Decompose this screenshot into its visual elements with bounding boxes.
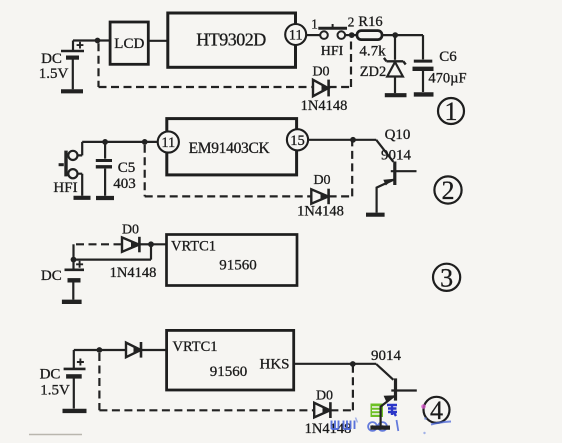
svg-text:ZD2: ZD2 [360, 64, 387, 80]
switch HFI (circuit 1) [318, 24, 347, 39]
IC U2 EM91403CK [167, 119, 297, 175]
label D0 (circuit 3) [122, 223, 139, 238]
label 9014 (circuit 2) [381, 148, 412, 164]
switch HFI (circuit 2) [59, 142, 91, 198]
resistor R16 [357, 31, 382, 40]
watermark blue swoosh under circle 4 [356, 417, 452, 434]
svg-text:HFI: HFI [53, 180, 77, 196]
diode D0 (circuit 4) [314, 402, 330, 418]
dashed wire rail node down and right (circuit 2) [145, 145, 311, 197]
watermark blue oo glyphs [368, 420, 398, 431]
label D0 (circuit 4) [316, 389, 333, 404]
svg-text:2: 2 [442, 176, 455, 205]
label D0 (circuit 2) [313, 173, 330, 188]
watermark blue www glyphs [332, 421, 355, 430]
wire pin15 to Q10 with node [308, 137, 376, 143]
label 1.5V (circuit 4) [40, 383, 70, 399]
label 1N4148 (circuit 3) [110, 265, 157, 281]
dashed wire from battery node down and right (circuit 1) [99, 43, 312, 87]
diode D0 (circuit 2) [311, 189, 328, 205]
svg-text:4: 4 [430, 396, 443, 425]
wire pin11 to HFI [306, 34, 320, 36]
label 9014 (circuit 4) [371, 348, 402, 364]
IC U1 HT9302D [168, 13, 296, 67]
svg-text:470µF: 470µF [428, 71, 466, 87]
svg-text:15: 15 [290, 133, 305, 149]
dashed wire diode up to emitter node (circuit 4) [330, 364, 353, 410]
diode D0 (circuit 3) [122, 237, 151, 253]
circled number 4 [424, 396, 450, 425]
label DC (circuit 3) [41, 268, 62, 284]
circled number 3 [433, 263, 460, 292]
svg-text:9014: 9014 [371, 348, 402, 364]
svg-text:R16: R16 [358, 14, 382, 30]
svg-text:3: 3 [440, 263, 453, 292]
svg-text:D0: D0 [122, 223, 139, 238]
label 1.5V (circuit 1) [39, 66, 69, 82]
label HFI (circuit 1) [321, 44, 344, 59]
LCD box [110, 22, 148, 64]
svg-text:HKS: HKS [259, 357, 289, 373]
battery BT2 DC (circuit 3) [62, 244, 84, 301]
label C6 [439, 49, 457, 65]
circled number 2 [434, 176, 461, 205]
svg-text:1.5V: 1.5V [40, 383, 70, 399]
svg-text:DC: DC [41, 51, 62, 67]
svg-text:1: 1 [311, 17, 318, 32]
svg-text:EM91403CK: EM91403CK [189, 140, 271, 157]
svg-text:DC: DC [40, 367, 61, 383]
svg-text:91560: 91560 [210, 364, 248, 380]
pin label 1 [311, 17, 318, 32]
wire LCD to U1 [148, 40, 168, 42]
capacitor C6 [413, 35, 434, 94]
wire battery to LCD with node [73, 38, 111, 44]
svg-text:403: 403 [113, 176, 136, 192]
diode D0 (circuit 1) [313, 80, 329, 97]
label 1N4148 (circuit 4) [305, 421, 352, 437]
watermark magenta dot [421, 404, 426, 409]
svg-text:LCD: LCD [114, 36, 144, 52]
label Q10 [385, 127, 411, 143]
svg-text:VRTC1: VRTC1 [171, 239, 216, 255]
wire HKS to transistor with node (circuit 4) [294, 361, 377, 367]
svg-text:9014: 9014 [381, 148, 412, 164]
pin 11 of U2 [158, 131, 179, 152]
label DC (circuit 1) [41, 51, 62, 67]
label DC (circuit 4) [40, 367, 61, 383]
dashed wire diode up to collector node (circuit 2) [329, 140, 353, 197]
dashed wire diode to switch node (circuit 1) [329, 40, 351, 87]
svg-text:1.5V: 1.5V [39, 66, 69, 82]
battery BT3 DC 1.5V (circuit 4) [63, 350, 87, 411]
svg-text:C6: C6 [439, 49, 457, 65]
pin 11 of U1 [285, 24, 306, 45]
label 4.7k [359, 44, 386, 60]
svg-text:Q10: Q10 [385, 127, 411, 143]
svg-text:1: 1 [445, 97, 458, 126]
label R16 [358, 14, 382, 30]
svg-text:91560: 91560 [219, 258, 257, 274]
svg-text:HT9302D: HT9302D [196, 30, 266, 50]
capacitor C5 [96, 142, 114, 198]
svg-text:1N4148: 1N4148 [301, 98, 348, 114]
label 1N4148 (circuit 2) [297, 204, 344, 220]
label ZD2 [360, 64, 387, 80]
svg-text:D0: D0 [312, 65, 329, 80]
faint scan mark bottom left [29, 434, 82, 436]
top rail wire with junctions (circuit 2) [82, 139, 158, 145]
svg-text:C5: C5 [118, 160, 136, 176]
wire R16 to node B [382, 32, 423, 38]
transistor Q10 9014 [366, 140, 417, 215]
svg-text:1N4148: 1N4148 [110, 265, 157, 281]
svg-text:D0: D0 [316, 389, 333, 404]
label 470uF [428, 71, 466, 87]
svg-text:VRTC1: VRTC1 [173, 339, 218, 355]
battery BT1 DC 1.5V (circuit 1) [61, 41, 84, 92]
svg-text:11: 11 [161, 135, 175, 151]
label 403 [113, 176, 136, 192]
pin 15 of U2 [287, 129, 308, 150]
label 1N4148 (circuit 1) [301, 98, 348, 114]
dashed wire node down and right (circuit 4) [99, 353, 313, 410]
wire battery to diode node (circuit 3) [74, 241, 167, 259]
IC U4 VRTC1 91560 HKS [167, 330, 294, 390]
svg-text:DC: DC [41, 268, 62, 284]
pin label 2 [348, 15, 355, 30]
svg-text:1N4148: 1N4148 [297, 204, 344, 220]
label HFI (circuit 2) [53, 180, 77, 196]
label C5 [118, 160, 136, 176]
diode D1 (circuit 4 input) [126, 342, 167, 358]
zener diode ZD2 [384, 35, 407, 95]
label D0 (circuit 1) [312, 65, 329, 80]
svg-text:HFI: HFI [321, 44, 344, 59]
watermark blue glyph [387, 405, 397, 416]
dashed wire to diode D0 (circuit 3) [76, 243, 121, 245]
svg-text:11: 11 [289, 28, 303, 44]
IC U3 VRTC1 91560 [167, 235, 298, 286]
wire switch to node A [345, 32, 357, 38]
wire battery to diode with node (circuit 4) [74, 347, 126, 353]
svg-text:2: 2 [348, 15, 355, 30]
svg-text:D0: D0 [313, 173, 330, 188]
svg-text:4.7k: 4.7k [359, 44, 386, 60]
transistor 9014 (circuit 4) [370, 364, 416, 428]
watermark logo green block [371, 404, 384, 418]
circled number 1 [438, 97, 464, 126]
